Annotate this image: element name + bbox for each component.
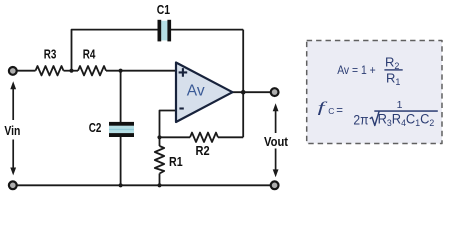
svg-text:C: C <box>328 106 334 116</box>
svg-text:Av = 1 +: Av = 1 + <box>337 63 376 77</box>
svg-text:Vin: Vin <box>4 124 20 138</box>
svg-text:2π: 2π <box>353 112 368 128</box>
svg-text:Av: Av <box>187 83 205 100</box>
svg-text:C2: C2 <box>89 122 102 136</box>
svg-text:=: = <box>336 105 343 117</box>
svg-text:R3R4C1C2: R3R4C1C2 <box>378 111 435 128</box>
svg-text:R4: R4 <box>83 48 96 62</box>
svg-text:R2: R2 <box>196 143 210 158</box>
svg-text:R3: R3 <box>44 48 57 62</box>
svg-text:C1: C1 <box>157 3 171 17</box>
svg-text:R1: R1 <box>169 154 183 169</box>
svg-text:Vout: Vout <box>264 134 288 149</box>
svg-text:1: 1 <box>397 99 403 111</box>
